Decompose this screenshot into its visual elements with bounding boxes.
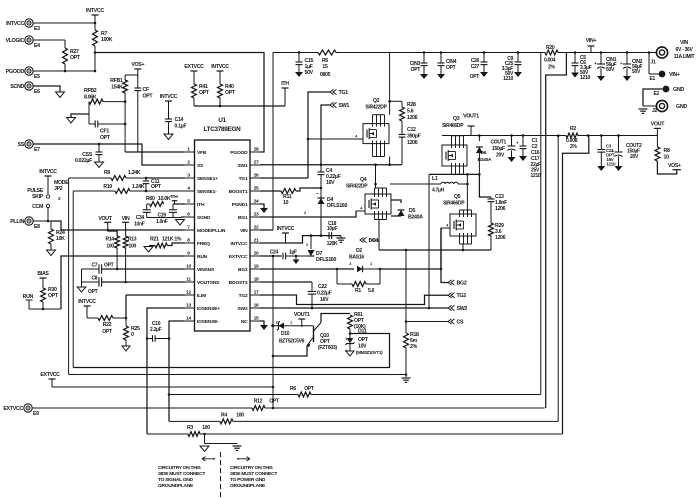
svg-text:0.1µF: 0.1µF [175, 124, 187, 130]
svg-text:0.22µF: 0.22µF [317, 291, 332, 297]
svg-text:ITH: ITH [171, 194, 179, 200]
svg-text:DFLS160: DFLS160 [327, 203, 348, 209]
svg-text:R13: R13 [128, 237, 137, 243]
svg-text:R28: R28 [407, 102, 416, 108]
svg-text:C12: C12 [407, 127, 416, 133]
svg-text:MODE/PLLIN: MODE/PLLIN [197, 228, 226, 234]
svg-text:5.6: 5.6 [407, 109, 414, 115]
svg-text:VIN+: VIN+ [586, 38, 597, 44]
svg-text:SW1: SW1 [339, 103, 350, 109]
svg-text:10K: 10K [56, 236, 65, 242]
svg-text:ITH: ITH [281, 81, 289, 87]
svg-text:RFB1: RFB1 [110, 78, 123, 84]
svg-text:E5: E5 [34, 74, 40, 80]
svg-text:BIAS: BIAS [37, 271, 49, 277]
svg-text:1206: 1206 [407, 115, 418, 121]
svg-text:C7: C7 [92, 263, 98, 269]
svg-text:D2: D2 [356, 248, 362, 254]
svg-text:4.7µH: 4.7µH [432, 188, 445, 194]
svg-text:SENSE1+: SENSE1+ [197, 176, 218, 182]
svg-text:1.0nF: 1.0nF [156, 219, 168, 225]
svg-text:R22: R22 [103, 322, 112, 328]
svg-text:(MM3Z10VT1): (MM3Z10VT1) [356, 350, 383, 355]
svg-text:(FZT603): (FZT603) [318, 345, 337, 351]
svg-text:LTC3789EGN: LTC3789EGN [203, 126, 241, 133]
svg-text:100: 100 [236, 413, 244, 419]
svg-text:IOSENSE+: IOSENSE+ [197, 306, 220, 312]
svg-text:5.6: 5.6 [368, 288, 375, 294]
svg-text:1.24K: 1.24K [128, 170, 141, 176]
svg-text:Q2: Q2 [373, 98, 380, 104]
svg-text:U1: U1 [218, 117, 226, 124]
svg-text:GROUNDPLANE: GROUNDPLANE [230, 483, 266, 489]
svg-text:R1: R1 [355, 288, 361, 294]
svg-text:INTVCC: INTVCC [6, 21, 24, 27]
svg-text:Q3: Q3 [453, 116, 460, 122]
svg-text:BG2: BG2 [238, 267, 248, 273]
svg-text:GND: GND [673, 87, 684, 93]
svg-text:E7: E7 [34, 147, 40, 153]
svg-text:10: 10 [283, 200, 289, 206]
svg-text:SiR466DP: SiR466DP [442, 123, 464, 129]
svg-text:2%: 2% [570, 144, 578, 150]
svg-text:SS: SS [18, 142, 25, 148]
svg-text:1206: 1206 [495, 235, 506, 241]
svg-text:VFB: VFB [197, 150, 207, 156]
svg-text:EXTVCC: EXTVCC [3, 406, 23, 412]
svg-text:E6: E6 [34, 89, 40, 95]
svg-text:SGND: SGND [197, 215, 211, 221]
svg-text:OPT: OPT [470, 74, 480, 80]
svg-text:E2: E2 [653, 91, 659, 97]
svg-text:INTVCC: INTVCC [86, 8, 104, 14]
svg-text:OPT: OPT [358, 337, 369, 343]
svg-text:OPT: OPT [269, 399, 280, 405]
svg-text:100K: 100K [101, 37, 113, 43]
svg-text:SiR422DP: SiR422DP [346, 184, 368, 190]
svg-text:R14: R14 [106, 237, 115, 243]
svg-text:BG2: BG2 [457, 281, 467, 287]
svg-text:10: 10 [664, 155, 670, 161]
svg-text:2%: 2% [410, 344, 418, 350]
svg-text:PLLIN: PLLIN [10, 219, 24, 225]
svg-text:ILIM: ILIM [197, 293, 206, 299]
svg-text:FREQ: FREQ [197, 241, 210, 247]
svg-text:SiR422DP: SiR422DP [365, 105, 387, 111]
svg-text:OPT: OPT [446, 65, 456, 71]
svg-text:J1: J1 [651, 60, 656, 66]
svg-text:0.022µF: 0.022µF [75, 158, 92, 164]
svg-text:SW2: SW2 [238, 306, 248, 312]
svg-text:10V: 10V [358, 344, 367, 350]
svg-text:OPT: OPT [70, 55, 81, 61]
svg-text:C8: C8 [92, 276, 98, 282]
svg-text:20V: 20V [630, 154, 639, 160]
svg-text:VOUT: VOUT [651, 122, 666, 128]
svg-text:INTVCC: INTVCC [39, 169, 57, 175]
svg-text:ITH: ITH [197, 202, 205, 208]
svg-text:RUN: RUN [197, 254, 208, 260]
svg-text:SIDE MUST CONNECT: SIDE MUST CONNECT [230, 471, 277, 477]
svg-text:OPT: OPT [411, 67, 421, 73]
svg-text:CCM: CCM [32, 204, 43, 210]
svg-text:OPT: OPT [151, 184, 162, 190]
svg-text:BG1: BG1 [369, 238, 379, 244]
svg-text:OPT: OPT [304, 386, 315, 392]
svg-text:OPT: OPT [199, 90, 210, 96]
svg-text:R12: R12 [254, 399, 263, 405]
svg-text:OPT: OPT [102, 329, 113, 335]
svg-text:INTVCC: INTVCC [160, 94, 178, 100]
svg-text:150µF: 150µF [492, 146, 505, 152]
svg-text:E8: E8 [34, 224, 40, 230]
svg-text:SKIP: SKIP [32, 194, 44, 200]
svg-text:VIN: VIN [680, 40, 688, 46]
svg-text:BAS16: BAS16 [349, 255, 364, 261]
svg-text:PGOOD: PGOOD [6, 69, 25, 75]
svg-text:OPT: OPT [104, 263, 114, 269]
svg-text:E1: E1 [649, 76, 655, 82]
svg-text:10µF: 10µF [327, 226, 338, 232]
svg-text:Q5: Q5 [454, 194, 461, 200]
svg-text:1µF: 1µF [289, 250, 297, 256]
svg-text:BZT52C5V6: BZT52C5V6 [279, 339, 305, 345]
svg-text:E3: E3 [34, 26, 40, 32]
svg-text:D5: D5 [409, 208, 415, 214]
svg-text:IOSENSE-: IOSENSE- [197, 319, 219, 325]
svg-text:PGOOD: PGOOD [230, 150, 248, 156]
svg-text:EXTVCC: EXTVCC [229, 254, 248, 260]
svg-text:50V: 50V [305, 70, 314, 76]
svg-text:R6: R6 [290, 386, 296, 392]
svg-text:CF: CF [143, 87, 149, 93]
svg-text:SENSE1-: SENSE1- [197, 189, 217, 195]
svg-text:10nF: 10nF [134, 222, 145, 228]
svg-text:100: 100 [129, 244, 137, 250]
svg-text:R3: R3 [187, 425, 193, 431]
svg-text:1.24K: 1.24K [132, 184, 145, 190]
svg-text:D10: D10 [281, 331, 290, 337]
svg-text:C24: C24 [270, 250, 279, 256]
svg-text:11A LIMIT: 11A LIMIT [674, 54, 695, 60]
svg-text:OPT: OPT [48, 293, 59, 299]
svg-text:TG2: TG2 [239, 293, 248, 299]
svg-text:VIN+: VIN+ [669, 72, 680, 78]
svg-text:COUT1: COUT1 [491, 140, 507, 146]
svg-text:E9: E9 [33, 411, 39, 417]
svg-text:OPT: OPT [100, 135, 111, 141]
svg-text:GND: GND [676, 104, 687, 110]
svg-text:0: 0 [131, 332, 134, 338]
svg-text:100: 100 [202, 425, 210, 431]
svg-text:CF1: CF1 [100, 129, 109, 135]
svg-text:SW2: SW2 [457, 306, 468, 312]
svg-text:INTVCC: INTVCC [78, 299, 96, 305]
svg-text:VOS+: VOS+ [131, 62, 144, 68]
svg-text:1206: 1206 [495, 206, 506, 212]
svg-text:BOOST1: BOOST1 [229, 189, 248, 195]
svg-text:EXTVCC: EXTVCC [184, 64, 204, 70]
svg-text:VOUT1: VOUT1 [463, 114, 479, 120]
svg-text:R20: R20 [546, 45, 555, 51]
svg-text:100: 100 [106, 244, 114, 250]
svg-text:PGND1: PGND1 [232, 202, 248, 208]
svg-text:CIRCUITRY ON THIS: CIRCUITRY ON THIS [230, 465, 273, 471]
svg-text:VOUT: VOUT [98, 216, 112, 222]
svg-text:20V: 20V [496, 153, 505, 159]
svg-text:R4: R4 [221, 413, 227, 419]
svg-text:50V: 50V [632, 69, 641, 75]
svg-text:INTVCC: INTVCC [211, 64, 229, 70]
svg-text:2%: 2% [548, 65, 556, 71]
svg-text:TO SIGNAL GND: TO SIGNAL GND [158, 477, 194, 483]
svg-text:154K: 154K [111, 85, 123, 91]
svg-text:E4: E4 [34, 43, 40, 49]
svg-text:Q4: Q4 [360, 177, 367, 183]
svg-text:VOS+: VOS+ [668, 163, 681, 169]
svg-text:SCND: SCND [10, 84, 24, 90]
svg-text:VINSNS: VINSNS [197, 267, 215, 273]
svg-text:OPT: OPT [88, 289, 98, 295]
svg-text:GROUNDPLANE: GROUNDPLANE [158, 483, 194, 489]
svg-text:INTVCC: INTVCC [277, 226, 295, 232]
svg-text:JP2: JP2 [54, 186, 63, 192]
svg-text:CIRCUITRY ON THIS: CIRCUITRY ON THIS [158, 465, 201, 471]
svg-text:BG1: BG1 [238, 215, 248, 221]
svg-text:10.0K: 10.0K [158, 196, 171, 202]
svg-text:1210: 1210 [531, 173, 541, 179]
svg-text:INTVCC: INTVCC [230, 241, 248, 247]
svg-text:8.06K: 8.06K [84, 95, 97, 101]
svg-text:SiR466DP: SiR466DP [443, 201, 465, 207]
svg-text:R60: R60 [146, 196, 155, 202]
svg-text:TO POWER GND: TO POWER GND [230, 477, 266, 483]
svg-text:SS: SS [197, 163, 204, 169]
svg-text:R10: R10 [103, 184, 112, 190]
svg-text:DFLS160: DFLS160 [316, 257, 337, 263]
svg-text:1210: 1210 [580, 75, 590, 81]
svg-text:RUN: RUN [23, 294, 34, 300]
svg-text:L1: L1 [432, 176, 438, 182]
svg-text:VIN: VIN [240, 228, 248, 234]
svg-text:BOOST2: BOOST2 [229, 280, 248, 286]
svg-text:1206: 1206 [407, 140, 418, 146]
svg-text:TG1: TG1 [339, 90, 349, 96]
svg-text:TG1: TG1 [239, 176, 248, 182]
svg-text:TG2: TG2 [457, 293, 467, 299]
svg-text:CS: CS [457, 320, 465, 326]
svg-text:EXTVCC: EXTVCC [40, 372, 60, 378]
svg-text:OPT: OPT [143, 94, 154, 100]
svg-text:16V: 16V [326, 180, 335, 186]
svg-text:C34: C34 [136, 215, 145, 221]
svg-text:C22: C22 [318, 284, 327, 290]
svg-text:RFB2: RFB2 [84, 88, 97, 94]
svg-text:1210: 1210 [503, 76, 513, 82]
svg-text:6V - 36V: 6V - 36V [675, 47, 693, 53]
svg-text:VIN: VIN [122, 216, 130, 222]
svg-text:B240A: B240A [408, 215, 423, 221]
svg-text:R8: R8 [664, 148, 670, 154]
svg-text:15: 15 [322, 64, 328, 70]
svg-text:0.004: 0.004 [544, 58, 556, 64]
svg-text:1210: 1210 [606, 162, 616, 167]
svg-text:390pF: 390pF [407, 134, 421, 140]
svg-text:SW1: SW1 [238, 163, 248, 169]
svg-text:R9: R9 [104, 170, 110, 176]
svg-text:16V: 16V [320, 297, 329, 303]
svg-text:50V: 50V [606, 67, 615, 73]
svg-text:SIDE MUST CONNECT: SIDE MUST CONNECT [158, 471, 205, 477]
svg-text:C27: C27 [471, 64, 480, 70]
svg-text:0805: 0805 [320, 72, 331, 78]
svg-text:NC: NC [241, 319, 248, 325]
svg-text:2.2µF: 2.2µF [150, 327, 162, 333]
svg-text:B240A: B240A [478, 157, 492, 163]
svg-text:VOUT1: VOUT1 [294, 312, 310, 318]
svg-text:VOUTSNS: VOUTSNS [197, 280, 220, 286]
svg-text:R2: R2 [570, 126, 576, 132]
svg-text:121K 1%: 121K 1% [162, 237, 182, 243]
svg-text:J2: J2 [652, 108, 657, 114]
svg-text:VLOGIC: VLOGIC [5, 38, 24, 44]
svg-text:C14: C14 [175, 117, 184, 123]
svg-text:D6: D6 [481, 150, 487, 156]
svg-text:OPT: OPT [225, 90, 236, 96]
svg-text:R21: R21 [150, 237, 159, 243]
svg-text:120K: 120K [327, 241, 338, 247]
